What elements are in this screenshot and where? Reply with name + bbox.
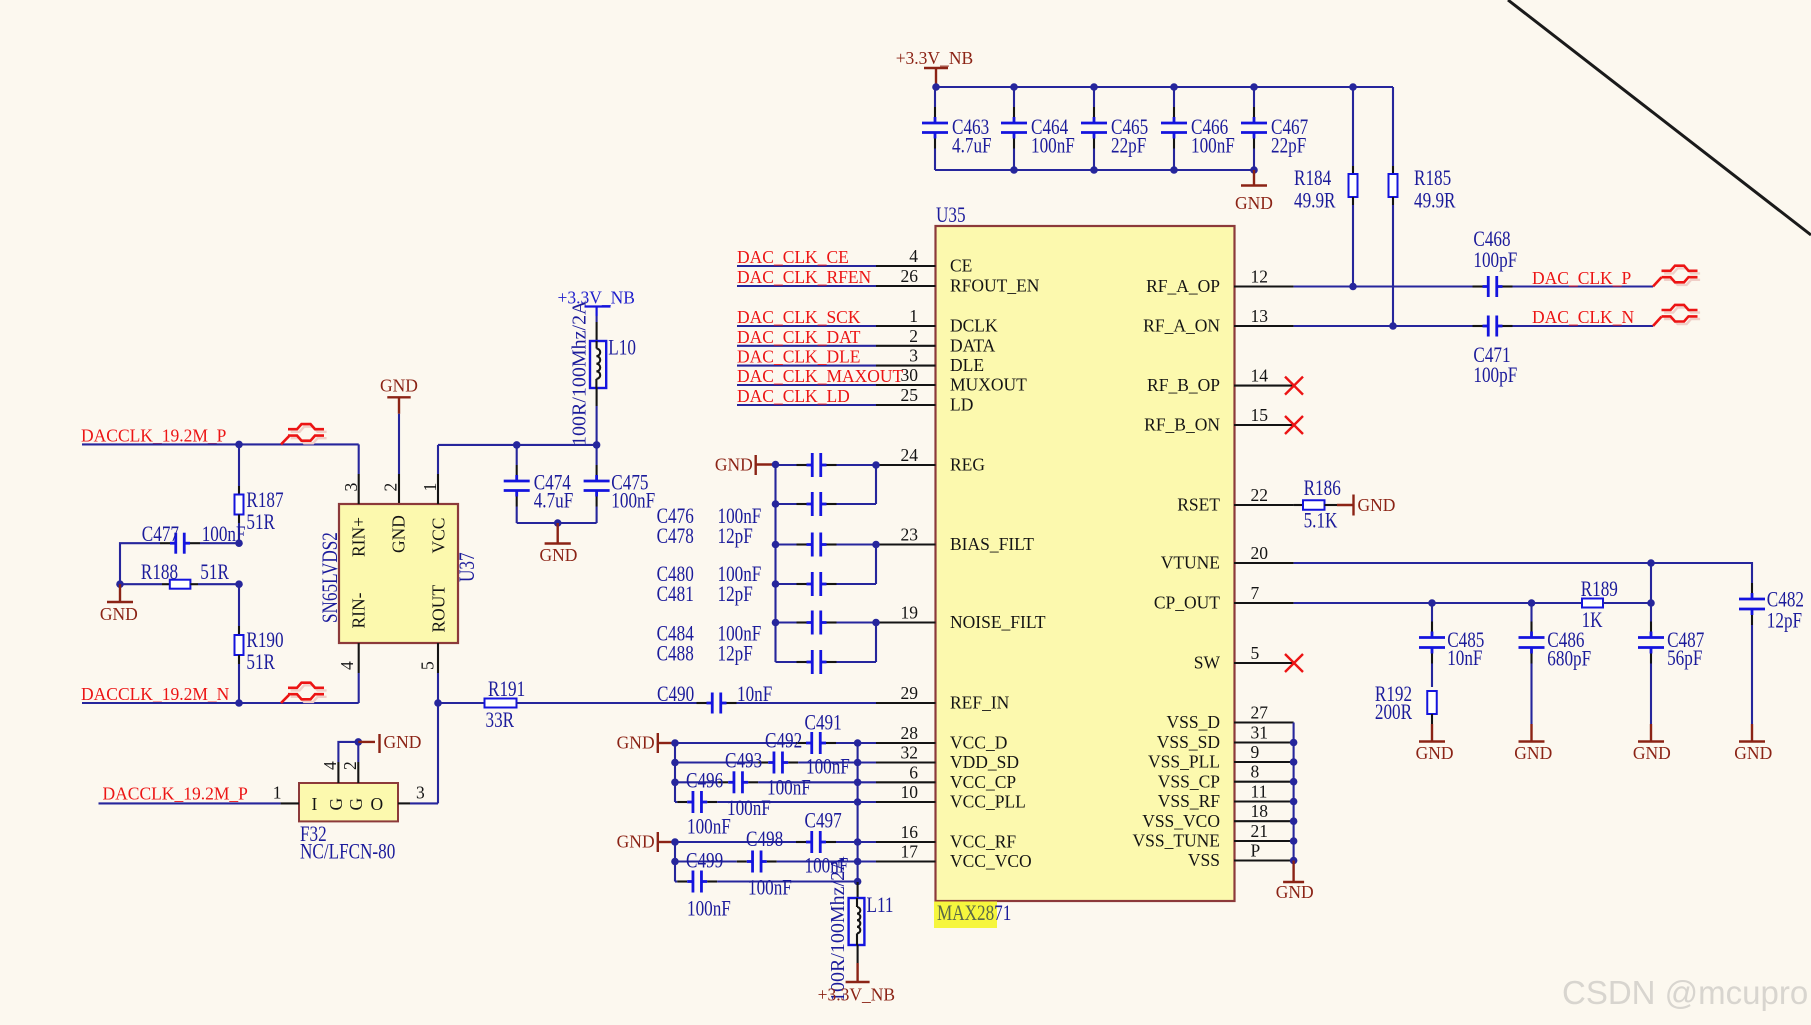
node filter bus junction: [772, 580, 780, 588]
svg-text:CSDN @mcupro: CSDN @mcupro: [1562, 974, 1808, 1011]
wire F32 pin 1: [99, 802, 281, 804]
node VSS bus junction: [1290, 758, 1298, 766]
resistor R189: [1582, 599, 1603, 608]
node filter bus junction: [772, 541, 780, 549]
svg-text:29: 29: [901, 683, 919, 703]
node VCC group1 bus junction: [671, 759, 679, 767]
svg-text:O: O: [371, 794, 384, 814]
svg-text:C481: C481: [657, 582, 694, 607]
ground (C485/R192): [1431, 724, 1433, 742]
U35 pin 21 VSS_TUNE: [1234, 840, 1294, 842]
wire VTUNE net: [1294, 563, 1752, 583]
svg-text:RF_A_ON: RF_A_ON: [1143, 316, 1220, 336]
svg-text:25: 25: [901, 385, 919, 405]
node VCC group1 bus junction: [671, 739, 679, 747]
svg-text:22pF: 22pF: [1271, 134, 1306, 159]
wire net DAC_CLK_DAT: [737, 345, 876, 347]
node filter bus junction: [772, 500, 780, 508]
node VCC right rail junction: [854, 838, 862, 846]
F32 pin 2 wire: [357, 762, 359, 783]
resistor R185: [1392, 87, 1394, 166]
wire net DAC_CLK_RFEN: [737, 285, 876, 287]
op-amp U37 SN65LVDS2 body: [339, 504, 458, 643]
svg-text:DACCLK_19.2M_P: DACCLK_19.2M_P: [81, 425, 227, 445]
ground (C474/C475): [557, 523, 559, 544]
op-amp U35 MAX2871 body: [936, 226, 1235, 901]
capacitor C465: [1093, 87, 1095, 107]
svg-text:GND: GND: [1235, 193, 1273, 213]
svg-text:100nF: 100nF: [687, 897, 731, 922]
wire filter cap row y504: [776, 503, 797, 505]
U35 pin 7 CP_OUT: [1234, 602, 1294, 604]
node top rail junctions: [932, 83, 940, 91]
node filter pair junction: [872, 541, 880, 549]
svg-text:SN65LVDS2: SN65LVDS2: [318, 532, 343, 623]
svg-text:18: 18: [1251, 801, 1269, 821]
U35 pin 13 RF_A_ON: [1234, 325, 1294, 327]
svg-text:+3.3V_NB: +3.3V_NB: [818, 985, 895, 1005]
svg-text:VSS_TUNE: VSS_TUNE: [1132, 831, 1220, 851]
svg-text:100pF: 100pF: [1473, 363, 1517, 388]
svg-text:51R: 51R: [200, 560, 229, 585]
svg-text:GND: GND: [1514, 743, 1552, 763]
U37 pin 3 wire: [358, 444, 360, 474]
resistor R190: [238, 584, 240, 626]
ground (C486): [1530, 724, 1532, 742]
svg-text:GND: GND: [617, 733, 655, 753]
svg-text:5.1K: 5.1K: [1304, 509, 1338, 534]
resistor R188: [120, 583, 162, 585]
svg-text:28: 28: [901, 723, 919, 743]
svg-text:4.7uF: 4.7uF: [534, 489, 574, 514]
svg-text:REF_IN: REF_IN: [950, 693, 1010, 713]
capacitor C482: [1751, 583, 1753, 593]
svg-text:GND: GND: [715, 455, 753, 475]
svg-text:DAC_CLK_MAXOUT: DAC_CLK_MAXOUT: [737, 366, 904, 386]
svg-text:MUXOUT: MUXOUT: [950, 375, 1027, 395]
svg-text:11: 11: [1251, 782, 1268, 802]
svg-text:CE: CE: [950, 256, 972, 276]
U35 pin 9 VSS_PLL: [1234, 761, 1294, 763]
resistor R186: [1294, 504, 1303, 506]
svg-text:7: 7: [1251, 583, 1260, 603]
node C477 junction: [235, 539, 243, 547]
svg-text:13: 13: [1251, 306, 1269, 326]
capacitor C467: [1253, 87, 1255, 107]
node gnd rail junction: [554, 519, 562, 527]
wire CP_OUT net: [1294, 602, 1582, 604]
svg-text:DAC_CLK_RFEN: DAC_CLK_RFEN: [737, 267, 872, 287]
svg-text:31: 31: [1251, 723, 1269, 743]
wire net DAC_CLK_CE: [737, 265, 876, 267]
svg-text:U37: U37: [455, 552, 480, 582]
resistor R191: [438, 702, 485, 704]
svg-text:DATA: DATA: [950, 335, 996, 355]
sheet corner diagonal line: [1508, 0, 1811, 235]
capacitor C464: [1013, 87, 1015, 107]
resistor R187: [238, 444, 240, 486]
svg-text:GND: GND: [1276, 882, 1314, 902]
svg-text:MAX2871: MAX2871: [937, 901, 1011, 926]
node VCC right rail junction: [854, 759, 862, 767]
no connect pin 5: [1285, 654, 1303, 672]
capacitor C485: [1431, 603, 1433, 622]
node VSS bus junction: [1290, 778, 1298, 786]
svg-text:RF_B_ON: RF_B_ON: [1144, 415, 1220, 435]
U35 pin 29 REF_IN: [876, 702, 936, 704]
svg-text:R184: R184: [1294, 166, 1331, 191]
capacitor C490: [697, 702, 707, 704]
svg-text:C488: C488: [657, 642, 694, 667]
U37 pin 5 wire: [437, 643, 439, 673]
ground (VSS): [1292, 861, 1294, 883]
wire filter bus vertical: [774, 465, 776, 663]
U35 pin 20 VTUNE: [1234, 562, 1294, 564]
U35 pin 11 VSS_RF: [1234, 800, 1294, 802]
U35 pin 2 DATA: [876, 345, 936, 347]
svg-text:2: 2: [909, 326, 918, 346]
svg-text:12pF: 12pF: [718, 582, 753, 607]
svg-text:10nF: 10nF: [1447, 646, 1482, 671]
svg-text:10nF: 10nF: [737, 682, 772, 707]
wire VCC2 row y861.5: [675, 860, 737, 862]
node VCC right rail junction: [854, 798, 862, 806]
inductor L10: [596, 316, 598, 322]
svg-text:DAC_CLK_P: DAC_CLK_P: [1532, 268, 1631, 288]
svg-text:C490: C490: [657, 682, 694, 707]
wire VCC row y743: [675, 742, 796, 744]
svg-text:1: 1: [909, 306, 918, 326]
resistor R184: [1352, 87, 1354, 166]
svg-text:DAC_CLK_SCK: DAC_CLK_SCK: [737, 307, 861, 327]
node DACCLK P junction: [235, 441, 243, 449]
node REF_IN junction: [434, 699, 442, 707]
U35 pin 15 RF_B_ON: [1234, 424, 1294, 426]
filter F32 body: [299, 783, 398, 821]
diff pair symbol DAC_CLK_N: [1653, 317, 1662, 326]
wire RF_A_OP net: [1294, 285, 1473, 287]
wire VCC2 row y842: [675, 841, 796, 843]
U37 pin 2 wire: [398, 414, 400, 474]
node R184 to RF_A_OP: [1349, 283, 1357, 291]
svg-text:C498: C498: [746, 827, 783, 852]
node VSS bus junction: [1290, 837, 1298, 845]
wire VCC2 row y881.5: [675, 880, 677, 882]
U35 pin 22 RSET: [1234, 504, 1294, 506]
svg-text:33R: 33R: [486, 708, 515, 733]
svg-text:DACCLK_19.2M_P: DACCLK_19.2M_P: [103, 783, 249, 803]
svg-text:VSS_RF: VSS_RF: [1158, 791, 1221, 811]
power +3.3V_NB (bottom): [857, 945, 859, 963]
svg-text:GND: GND: [389, 515, 409, 553]
svg-text:100nF: 100nF: [1191, 134, 1235, 159]
node VSS bus junction: [1290, 817, 1298, 825]
node VTUNE junction: [1647, 559, 1655, 567]
wire DACCLK_19.2M_N: [82, 702, 359, 704]
svg-text:26: 26: [901, 266, 919, 286]
svg-text:RF_A_OP: RF_A_OP: [1146, 276, 1220, 296]
svg-text:DAC_CLK_CE: DAC_CLK_CE: [737, 247, 849, 267]
svg-text:VSS: VSS: [1188, 850, 1220, 870]
svg-text:51R: 51R: [246, 510, 275, 535]
U35 pin 8 VSS_CP: [1234, 781, 1294, 783]
node R185 to RF_A_ON: [1389, 322, 1397, 330]
svg-text:GND: GND: [384, 732, 422, 752]
wire F32 pin 3: [398, 802, 410, 804]
U35 pin 25 LD: [876, 404, 936, 406]
svg-text:3: 3: [909, 346, 918, 366]
svg-text:G: G: [346, 798, 366, 811]
svg-text:27: 27: [1251, 703, 1269, 723]
node F32 gnd junction: [355, 738, 363, 746]
svg-text:LD: LD: [950, 395, 973, 415]
node filter pair junction: [872, 619, 880, 627]
svg-text:VSS_CP: VSS_CP: [1158, 771, 1221, 791]
svg-text:100R/100Mhz/2A: 100R/100Mhz/2A: [569, 300, 591, 446]
node DACCLK N junction: [235, 699, 243, 707]
no connect pin 14: [1285, 377, 1303, 395]
wire filter pair right rail: [875, 623, 877, 663]
wire VCC node U37: [438, 444, 597, 446]
U35 pin 16 VCC_RF: [876, 841, 936, 843]
ground (top bank): [1253, 170, 1255, 186]
svg-text:SW: SW: [1194, 653, 1221, 673]
svg-text:200R: 200R: [1375, 700, 1413, 725]
svg-text:DAC_CLK_N: DAC_CLK_N: [1532, 307, 1634, 327]
svg-text:4: 4: [320, 761, 340, 770]
svg-text:14: 14: [1251, 366, 1269, 386]
ground (RSET): [1352, 495, 1354, 516]
svg-text:12pF: 12pF: [718, 642, 753, 667]
node filter pair junction: [872, 461, 880, 469]
svg-text:GND: GND: [100, 604, 138, 624]
svg-text:C477: C477: [142, 522, 179, 547]
wire C474/C475 gnd rail: [517, 522, 597, 524]
svg-text:DAC_CLK_LD: DAC_CLK_LD: [737, 386, 850, 406]
U35 pin 18 VSS_VCO: [1234, 820, 1294, 822]
svg-text:RFOUT_EN: RFOUT_EN: [950, 276, 1040, 296]
svg-text:GND: GND: [380, 376, 418, 396]
svg-text:NC/LFCN-80: NC/LFCN-80: [300, 840, 395, 865]
node VCC junctions: [513, 441, 521, 449]
svg-text:49.9R: 49.9R: [1414, 189, 1456, 214]
capacitor C474: [516, 445, 518, 465]
svg-text:VSS_SD: VSS_SD: [1157, 732, 1220, 752]
node VCC right rail junction: [854, 739, 862, 747]
svg-text:C497: C497: [805, 809, 842, 834]
wire +3.3V_NB top rail: [936, 86, 1393, 88]
svg-text:R187: R187: [246, 488, 283, 513]
svg-text:20: 20: [1251, 543, 1269, 563]
svg-text:GND: GND: [1358, 495, 1396, 515]
svg-text:GND: GND: [617, 832, 655, 852]
svg-text:2: 2: [381, 483, 401, 492]
svg-text:4: 4: [337, 661, 357, 670]
wire net DAC_CLK_LD: [737, 404, 876, 406]
svg-text:NOISE_FILT: NOISE_FILT: [950, 612, 1046, 632]
wire filter pair right rail: [875, 545, 877, 585]
wire VCC group1 left bus: [674, 743, 676, 802]
svg-text:C478: C478: [657, 524, 694, 549]
wire net DAC_CLK_SCK: [737, 325, 876, 327]
svg-text:DACCLK_19.2M_N: DACCLK_19.2M_N: [81, 684, 230, 704]
wire VCC group2 left bus: [674, 842, 676, 882]
svg-text:12: 12: [1251, 267, 1269, 287]
svg-text:VSS_VCO: VSS_VCO: [1142, 811, 1220, 831]
svg-text:P: P: [1251, 841, 1261, 861]
wire VCC row y802: [675, 801, 677, 803]
svg-text:100R/100Mhz/2A: 100R/100Mhz/2A: [827, 856, 849, 1002]
svg-text:21: 21: [1251, 821, 1269, 841]
svg-text:VCC_PLL: VCC_PLL: [950, 792, 1026, 812]
svg-text:22pF: 22pF: [1111, 134, 1146, 159]
svg-text:VCC_VCO: VCC_VCO: [950, 851, 1032, 871]
diff pair symbol DAC_CLK_P: [1653, 277, 1662, 286]
svg-text:100nF: 100nF: [767, 776, 811, 801]
svg-text:VSS_D: VSS_D: [1167, 712, 1221, 732]
svg-text:GND: GND: [1416, 743, 1454, 763]
resistor R192: [1427, 691, 1437, 714]
svg-text:VSS_PLL: VSS_PLL: [1148, 752, 1220, 772]
svg-text:RIN+: RIN+: [349, 517, 369, 557]
svg-text:RSET: RSET: [1177, 495, 1220, 515]
svg-text:49.9R: 49.9R: [1294, 189, 1336, 214]
svg-text:C499: C499: [686, 849, 723, 874]
svg-text:BIAS_FILT: BIAS_FILT: [950, 534, 1034, 554]
svg-text:3: 3: [416, 783, 425, 803]
wire net DAC_CLK_DLE: [737, 365, 876, 367]
svg-text:DCLK: DCLK: [950, 316, 998, 336]
wire filter cap row y544.5: [776, 543, 797, 545]
svg-text:16: 16: [901, 822, 919, 842]
svg-text:VCC_D: VCC_D: [950, 733, 1007, 753]
svg-text:DAC_CLK_DLE: DAC_CLK_DLE: [737, 347, 860, 367]
wire VCC group right rail (to L11): [857, 743, 859, 882]
U35 pin P VSS: [1234, 859, 1294, 861]
ground (C477/R188): [119, 584, 121, 602]
svg-text:RF_B_OP: RF_B_OP: [1147, 375, 1220, 395]
U37 pin 4 wire: [358, 643, 360, 673]
svg-text:C492: C492: [765, 729, 802, 754]
wire filter cap row y465: [776, 464, 797, 466]
wire filter cap row y662: [776, 661, 797, 663]
wire VSS bus: [1293, 723, 1295, 861]
capacitor C487: [1650, 603, 1652, 622]
node VCC group1 bus junction: [671, 779, 679, 787]
svg-text:GND: GND: [540, 545, 578, 565]
svg-text:CP_OUT: CP_OUT: [1154, 593, 1220, 613]
svg-text:9: 9: [1251, 742, 1260, 762]
svg-text:L10: L10: [608, 336, 636, 361]
svg-text:22: 22: [1251, 485, 1269, 505]
svg-text:19: 19: [901, 603, 919, 623]
wire VCC row y782.3: [675, 781, 718, 783]
U35 pin 24 REG: [876, 464, 936, 466]
capacitor C486: [1530, 603, 1532, 622]
svg-text:GND: GND: [1734, 743, 1772, 763]
svg-text:680pF: 680pF: [1547, 647, 1591, 672]
svg-text:56pF: 56pF: [1667, 646, 1702, 671]
U35 pin 6 VCC_CP: [876, 781, 936, 783]
U35 part number MAX2871 with highlight: [934, 902, 997, 929]
node R188 junctions: [116, 580, 124, 588]
svg-text:51R: 51R: [246, 650, 275, 675]
svg-text:VTUNE: VTUNE: [1161, 553, 1220, 573]
wire filter cap row y584: [776, 583, 797, 585]
svg-text:GND: GND: [1633, 743, 1671, 763]
svg-text:L11: L11: [867, 893, 894, 918]
svg-text:REG: REG: [950, 455, 985, 475]
ground (C487): [1650, 724, 1652, 742]
svg-text:10: 10: [901, 782, 919, 802]
U35 pin 31 VSS_SD: [1234, 741, 1294, 743]
svg-text:12pF: 12pF: [1767, 609, 1802, 634]
node VCC group2 bus junction: [671, 838, 679, 846]
svg-text:I: I: [312, 794, 318, 814]
svg-text:100nF: 100nF: [806, 755, 850, 780]
svg-text:100nF: 100nF: [687, 815, 731, 840]
svg-text:+3.3V_NB: +3.3V_NB: [896, 48, 973, 68]
svg-text:C491: C491: [805, 711, 842, 736]
svg-text:VCC_CP: VCC_CP: [950, 772, 1016, 792]
wire DAC_CLK_P out: [1513, 285, 1654, 287]
U37 pin 1 wire: [437, 445, 439, 474]
svg-text:ROUT: ROUT: [429, 585, 449, 633]
U35 pin 3 DLE: [876, 365, 936, 367]
svg-text:100nF: 100nF: [748, 876, 792, 901]
node VCC right rail junction: [854, 878, 862, 886]
node filter bus junction: [772, 461, 780, 469]
svg-text:32: 32: [901, 743, 919, 763]
U35 pin 27 VSS_D: [1234, 721, 1294, 723]
svg-text:1: 1: [273, 783, 282, 803]
svg-text:2: 2: [340, 761, 360, 770]
svg-text:15: 15: [1251, 405, 1269, 425]
wire DACCLK_19.2M_P: [82, 443, 359, 445]
capacitor C466: [1173, 87, 1175, 107]
svg-text:VDD_SD: VDD_SD: [950, 752, 1019, 772]
svg-text:VCC: VCC: [429, 518, 449, 554]
node VSS bus junction: [1290, 857, 1298, 865]
ground (F32): [358, 741, 375, 743]
svg-text:U35: U35: [936, 203, 966, 228]
capacitor C475: [596, 445, 598, 465]
svg-text:R189: R189: [1581, 577, 1618, 602]
svg-text:4: 4: [909, 246, 918, 266]
svg-text:C493: C493: [725, 749, 762, 774]
node VCC right rail junction: [854, 779, 862, 787]
svg-text:5: 5: [1251, 643, 1260, 663]
node bottom rail junctions: [1010, 166, 1018, 174]
svg-text:100nF: 100nF: [727, 796, 771, 821]
node CP_OUT junctions: [1428, 599, 1436, 607]
wire filter cap row y622.5: [776, 621, 797, 623]
capacitor C463: [934, 87, 936, 107]
svg-text:DAC_CLK_DAT: DAC_CLK_DAT: [737, 327, 861, 347]
svg-text:VCC_RF: VCC_RF: [950, 832, 1016, 852]
svg-text:100pF: 100pF: [1473, 248, 1517, 273]
node filter bus junction: [772, 619, 780, 627]
svg-text:R185: R185: [1414, 166, 1451, 191]
no connect pin 15: [1285, 416, 1303, 434]
U35 pin 4 CE: [876, 265, 936, 267]
svg-text:G: G: [326, 798, 346, 811]
svg-text:5: 5: [418, 661, 438, 670]
U35 pin 5 SW: [1234, 662, 1294, 664]
wire filter pair right rail: [875, 465, 877, 504]
svg-text:100nF: 100nF: [1031, 134, 1075, 159]
svg-text:23: 23: [901, 525, 919, 545]
